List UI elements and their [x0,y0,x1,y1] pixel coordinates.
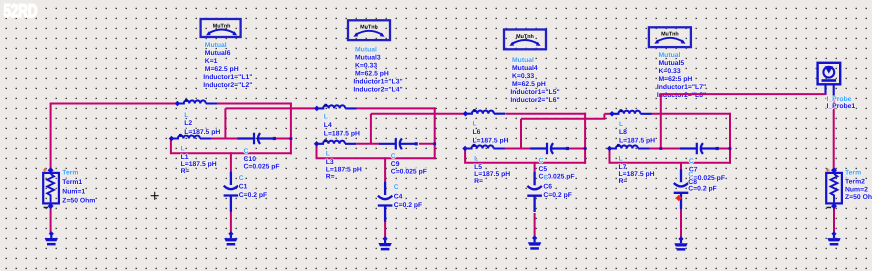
wire probe to Term2 [833,98,835,171]
wire output tap vertical [660,94,662,148]
wire sec3 bottom return [464,150,586,163]
svg-text:C=0.025 pF: C=0.025 pF [244,164,280,171]
capacitor C7 (series coupling cap) [680,143,717,154]
ground under Term2 [831,231,836,236]
capacitor C5 (series coupling cap) [530,143,567,154]
svg-text:C: C [239,175,244,182]
svg-text:M=62.5 pH: M=62.5 pH [512,81,546,88]
wire Term1 to ground [50,208,52,234]
svg-text:MuTnh: MuTnh [661,32,679,38]
wire Term2 to ground [833,208,835,234]
wire L6 to node 4 [506,113,587,115]
junction [729,147,732,150]
svg-text:L8: L8 [619,129,627,136]
svg-text:C: C [391,153,396,160]
wire L1 to C10 [211,138,238,140]
svg-text:C: C [244,148,249,155]
wire L4 to node 3 [357,107,436,109]
junction [433,142,436,145]
svg-text:C=0.2 pF: C=0.2 pF [394,202,423,209]
svg-text:M=62.5 pH: M=62.5 pH [205,66,239,73]
svg-text:Mutual5: Mutual5 [659,60,685,67]
svg-text:Term2: Term2 [845,179,865,186]
svg-text:L: L [326,151,330,158]
svg-text:Num=1: Num=1 [62,189,85,196]
inductor L6 (top coil sec3) [466,111,506,114]
svg-text:L=187.5 pH: L=187.5 pH [326,166,362,173]
svg-text:Inductor2="L2": Inductor2="L2" [203,82,252,89]
svg-text:L=187.5 pH: L=187.5 pH [184,129,220,136]
svg-text:L: L [181,145,185,152]
svg-text:L: L [619,155,623,162]
wire C8 to ground [680,209,682,239]
svg-text:C: C [394,184,399,191]
ground under C8 [678,236,683,241]
svg-text:L: L [473,121,477,128]
port Term1 (50 ohm) [43,173,59,204]
mutual inductance U2 Mutual3 icon [348,20,390,40]
svg-text:Term: Term [845,169,861,176]
wire C4 to ground [384,221,386,238]
svg-text:MuTnh: MuTnh [516,34,534,40]
svg-text:Inductor2="L6": Inductor2="L6" [510,97,559,104]
svg-text:M=62.5 pH: M=62.5 pH [659,76,693,83]
svg-text:L: L [184,112,188,119]
wire node2 right vertical sec1 [290,103,292,155]
capacitor C8 (shunt cap to ground) [674,169,689,209]
svg-text:Inductor2="L8": Inductor2="L8" [657,92,706,99]
capacitor C1 (shunt cap to ground) [224,172,239,212]
svg-text:C: C [543,175,548,182]
ground under C4 [383,236,388,241]
svg-text:C5: C5 [539,166,548,173]
svg-text:C: C [689,158,694,165]
svg-text:Z=50 Ohm: Z=50 Ohm [62,198,95,205]
svg-text:C6: C6 [543,184,552,191]
svg-text:C: C [688,172,693,179]
svg-text:Mutual3: Mutual3 [355,54,381,61]
capacitor C10 (series coupling cap) [237,133,274,144]
svg-text:MuTnh: MuTnh [360,25,378,31]
junction [290,137,293,140]
svg-text:Inductor2="L4": Inductor2="L4" [353,86,402,93]
wire sec3 tap with jog [521,114,604,120]
wire jog to L8 [604,113,610,115]
wire C6 to ground [534,213,536,238]
svg-text:C4: C4 [394,194,403,201]
wire C5 to right vertical [567,148,586,150]
capacitor C4 (shunt cap to ground) [378,182,393,222]
svg-text:Mutual: Mutual [512,57,534,64]
svg-text:R=: R= [619,178,628,185]
inductor L8 (top coil sec4) [612,111,652,114]
svg-text:L3: L3 [326,159,334,166]
wire C7 to right vertical [717,148,731,150]
wire sec3 shunt upper [534,162,536,172]
mutual inductance U4 Mutual5 icon [649,27,691,47]
wire sec2 tap to L6 [371,113,464,115]
svg-text:L=187.5 pH: L=187.5 pH [619,171,655,178]
inductor L3 (resonator coil sec2) [317,141,357,144]
svg-text:K=0.33: K=0.33 [355,62,377,69]
svg-text:Term1: Term1 [62,179,82,186]
svg-text:L: L [619,121,623,128]
wire sec2 shunt upper [384,157,386,182]
inductor L5 (resonator coil sec3) [465,145,505,148]
svg-text:Mutual6: Mutual6 [205,50,231,57]
svg-text:L=187.5 pH: L=187.5 pH [473,137,509,144]
svg-text:Inductor1="L3": Inductor1="L3" [353,78,402,85]
junction [584,147,587,150]
svg-text:52RD: 52RD [4,0,38,21]
svg-text:K=0.33: K=0.33 [659,68,681,75]
wire sec1 bottom return [170,140,292,154]
svg-text:+: + [826,166,831,175]
svg-text:C=0.2 pF: C=0.2 pF [239,192,268,199]
svg-text:L1: L1 [181,154,189,161]
ground under C1 [228,231,233,236]
inductor L1 (resonator coil sec1) [172,135,212,138]
wire sec1 tap vertical [224,108,226,138]
svg-text:C=0.2 pF: C=0.2 pF [543,192,572,199]
svg-text:R=: R= [326,174,335,181]
wire C10 to right vertical [274,138,292,140]
wire sec1 tap to L4 [225,107,315,109]
wire L3 to C9 [356,143,379,145]
wire right vertical sec3 [584,113,586,164]
svg-text:L=187.5 pH: L=187.5 pH [181,161,217,168]
svg-text:Z=50 Ohm: Z=50 Ohm [845,194,872,201]
svg-text:I_Probe1: I_Probe1 [827,103,856,110]
svg-text:Inductor1="L7": Inductor1="L7" [657,84,706,91]
svg-text:L4: L4 [324,122,332,129]
wire sec4 shunt upper [680,163,682,170]
port Term2 (50 ohm) [826,173,842,204]
wire L7 to C7 [649,148,680,150]
inductor L7 (resonator coil sec4) [610,145,650,148]
wire right vertical sec4 [729,113,731,164]
svg-text:L2: L2 [184,120,192,127]
wire sec2 tap vertical [370,114,372,144]
svg-text:L: L [324,114,328,121]
svg-text:K=1: K=1 [205,58,218,65]
junction [659,147,662,150]
ground under C6 [532,235,537,240]
svg-text:MuTnh: MuTnh [213,23,231,29]
svg-text:Inductor1="L5": Inductor1="L5" [510,89,559,96]
svg-text:Num=2: Num=2 [845,186,868,193]
svg-text:Mutual4: Mutual4 [512,65,538,72]
mutual inductance U3 Mutual4 icon [504,30,546,50]
svg-text:Mutual: Mutual [355,46,377,53]
svg-text:C1: C1 [239,184,248,191]
wire sec1 shunt upper [230,152,232,172]
wire L8 to node 5 [651,113,731,115]
inductor L4 (top coil sec2) [317,105,357,108]
svg-text:+: + [43,166,48,175]
svg-text:L7: L7 [619,164,627,171]
inductor L2 (top coil sec1) [177,100,217,103]
wire C1 to ground [230,211,232,233]
current probe I_Probe1 [818,63,841,99]
svg-text:Term: Term [62,170,78,177]
svg-text:I_Probe: I_Probe [827,96,852,103]
svg-text:R=: R= [181,168,190,175]
svg-text:Mutual: Mutual [659,52,681,59]
svg-text:R=: R= [474,178,483,185]
svg-text:C9: C9 [391,161,400,168]
svg-text:K=0.33: K=0.33 [512,73,534,80]
wire L5 to C5 [505,148,531,150]
wire L2 to node 2 [217,103,292,105]
svg-text:Mutual: Mutual [205,42,227,49]
svg-text:L6: L6 [473,129,481,136]
wire Term1 to L2 (input bus) [51,104,177,171]
mutual inductance U1 Mutual6 icon [201,19,241,37]
wire sec3 tap vertical [520,119,522,149]
svg-text:L=187.5 pH: L=187.5 pH [324,131,360,138]
wire C9 to right vertical [419,143,436,145]
capacitor C6 (shunt cap to ground) [527,172,542,212]
wire right vertical sec2 [434,107,436,159]
svg-text:C=0.2 pF: C=0.2 pF [688,185,717,192]
svg-text:L: L [474,155,478,162]
svg-text:C=0.025 pF: C=0.025 pF [391,169,427,176]
svg-text:C10: C10 [244,156,257,163]
svg-text:L5: L5 [474,164,482,171]
origin crosshair [151,192,159,200]
svg-text:L=187.5 pH: L=187.5 pH [474,171,510,178]
svg-text:C: C [539,158,544,165]
svg-text:M=62.5 pH: M=62.5 pH [355,70,389,77]
wire output to probe [660,93,826,95]
svg-text:Inductor1="L1": Inductor1="L1" [203,74,252,81]
ground under Term1 [49,231,54,236]
svg-text:L=187.5 pH: L=187.5 pH [619,138,655,145]
red marker node [676,195,683,202]
wire sec4 bottom return [609,150,732,163]
capacitor C9 (series coupling cap) [379,138,416,149]
wire sec2 bottom return [316,145,436,159]
